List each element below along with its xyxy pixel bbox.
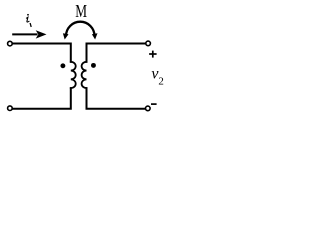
svg-text:2: 2	[158, 76, 163, 88]
svg-text:M: M	[75, 1, 87, 21]
